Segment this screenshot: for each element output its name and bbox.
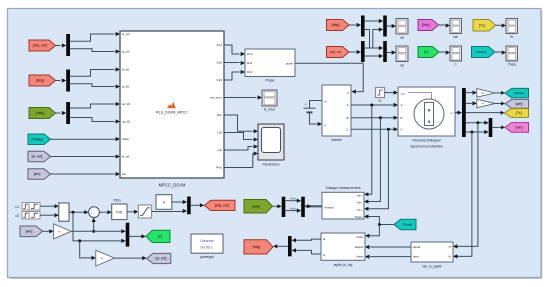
wire inverter B to PMSM	[351, 116, 398, 120]
wire Dv1 to Pluse	[224, 45, 245, 56]
svg-text:+: +	[90, 211, 92, 215]
svg-text:[Theta]: [Theta]	[32, 137, 43, 141]
svg-text:theta: theta	[122, 137, 129, 141]
svg-text:[Theta]: [Theta]	[476, 50, 485, 54]
svg-text:iq: iq	[323, 253, 326, 257]
scope iqf	[396, 46, 408, 67]
svg-text:Rsv: Rsv	[217, 113, 223, 117]
wire mux to goto idq_ref	[191, 203, 205, 207]
wire mux to goto iab	[492, 126, 505, 130]
svg-text:+: +	[305, 102, 307, 106]
wire m to demux	[455, 111, 462, 115]
svg-text:[udq]: [udq]	[36, 111, 45, 115]
block constant 0	[156, 195, 172, 210]
svg-text:PID: PID	[116, 211, 122, 215]
svg-text:<Uq>: <Uq>	[289, 207, 296, 211]
svg-text:id_ref: id_ref	[122, 32, 130, 36]
wire iq to mux	[292, 248, 321, 254]
wire Theta to scope	[495, 50, 506, 54]
from tag [w_ref]	[28, 151, 51, 162]
from tag [we]	[28, 169, 51, 180]
step source n1b	[29, 203, 40, 211]
svg-text:w_ref: w_ref	[122, 155, 130, 159]
wire gain to goto we	[495, 102, 505, 106]
svg-text:w_error: w_error	[264, 108, 276, 112]
scope idf	[396, 19, 408, 40]
wire n2 to mux	[40, 213, 59, 217]
scope w_error	[262, 90, 277, 112]
svg-text:Theta: Theta	[354, 215, 362, 219]
wire w_ref to block	[51, 154, 121, 158]
from tag [idq_ref] (top)	[327, 47, 350, 58]
svg-text:Dv1: Dv1	[217, 43, 223, 47]
svg-text:[idq]: [idq]	[253, 245, 260, 249]
svg-text:[n]: [n]	[158, 235, 162, 239]
wire demux to theta gain	[466, 91, 477, 95]
label n2	[16, 214, 20, 218]
wire Lqv to Parameters	[224, 144, 258, 150]
from tag [n] (top)	[418, 47, 439, 58]
wire gain to goto w_ref	[115, 256, 147, 260]
svg-text:-K-: -K-	[481, 92, 484, 95]
wire inverter A to PMSM	[351, 103, 398, 107]
svg-text:RLS_DSVM_MPCC: RLS_DSVM_MPCC	[156, 111, 188, 115]
svg-text:[idq_ref]: [idq_ref]	[330, 50, 341, 54]
wire PID to saturation	[127, 210, 138, 214]
goto tag [idq] (lower)	[244, 240, 273, 254]
top mux 2	[383, 41, 387, 62]
wire tap C to Vc	[364, 129, 388, 211]
svg-text:Parameters: Parameters	[262, 163, 279, 167]
goto tag [idq_ref] (lower)	[204, 200, 235, 210]
wire demux2 out2 to iq_k0	[70, 84, 120, 89]
wire demux ia to mux	[466, 121, 489, 125]
svg-text:[Te]: [Te]	[479, 23, 485, 27]
svg-text:ia: ia	[449, 244, 452, 248]
svg-text:Discrete: Discrete	[200, 239, 213, 243]
svg-text:iq_k0: iq_k0	[122, 85, 130, 89]
svg-text:[udq]: [udq]	[252, 204, 260, 208]
wire demux to goto Te	[466, 111, 505, 115]
gain theta	[477, 89, 495, 98]
svg-text:alpha: alpha	[413, 245, 421, 249]
svg-text:iab_to_iaplbt: iab_to_iaplbt	[423, 264, 442, 268]
svg-text:[iab]: [iab]	[515, 126, 522, 130]
wire mux1 to scope idf	[387, 24, 396, 28]
goto tag [Theta]	[505, 88, 529, 97]
from tag [idq]	[29, 75, 56, 86]
svg-text:Dv3: Dv3	[217, 78, 223, 82]
svg-text:-K-: -K-	[100, 257, 103, 260]
wire nref to sum	[69, 210, 89, 214]
svg-text:uq_k0: uq_k0	[122, 120, 131, 124]
goto tag [w_ref]	[147, 253, 171, 263]
wire we feedback up	[92, 218, 96, 233]
wire demux1 out1 to id_ref	[70, 32, 120, 41]
wire demux ib to mux	[466, 130, 489, 134]
svg-text:Dv2: Dv2	[247, 61, 253, 65]
block powergui	[191, 234, 223, 259]
scope iab	[450, 19, 462, 39]
wire tap ia down	[453, 123, 478, 249]
svg-text:id: id	[323, 237, 326, 241]
block TL (load torque step)	[376, 88, 385, 103]
wire we to block	[51, 172, 121, 176]
from tag [udq] (lower)	[244, 200, 273, 214]
gain we scale	[54, 224, 72, 239]
from tag [Te] (top)	[473, 20, 496, 32]
svg-text:[iab]: [iab]	[422, 23, 430, 27]
svg-text:powergui: powergui	[200, 255, 214, 259]
label n1	[16, 205, 20, 209]
mux iab	[489, 118, 493, 137]
scope Parameters	[258, 124, 284, 167]
sum junction	[89, 207, 100, 218]
wire Theta distribution	[364, 214, 394, 238]
wire demux2 out1 to id_k0	[70, 67, 120, 76]
demux idq_ref	[66, 34, 70, 56]
svg-text:C: C	[401, 127, 403, 131]
svg-text:Te: Te	[510, 35, 514, 39]
svg-text:[n]: [n]	[424, 50, 429, 54]
demux machine outputs	[462, 88, 466, 137]
block saturation	[138, 205, 151, 218]
wire Ldv to Parameters	[224, 133, 258, 142]
from tag [idq] (top)	[327, 20, 350, 31]
wire demux3 out2 to uq_k0	[70, 118, 120, 124]
wire n1 to mux	[40, 204, 59, 208]
svg-text:[we]: [we]	[34, 172, 41, 176]
svg-text:N: N	[428, 107, 431, 112]
wire gain to goto Theta	[495, 91, 505, 95]
from tag [iab] (top)	[418, 20, 439, 31]
svg-text:id_k0: id_k0	[122, 68, 130, 72]
wire sum to PID	[99, 210, 111, 214]
svg-text:Synchronous Machine: Synchronous Machine	[410, 144, 443, 148]
wire Rsv to Parameters	[224, 115, 258, 133]
top demux 1	[361, 16, 365, 37]
scope Te	[506, 19, 518, 39]
block Permanent Magnet Synchronous Machine	[398, 87, 455, 148]
mux speed ref	[59, 203, 69, 221]
svg-text:[Te]: [Te]	[516, 111, 522, 115]
step source n1a	[22, 203, 29, 211]
block Voltage measurement	[322, 186, 364, 219]
svg-text:ibeta: ibeta	[356, 255, 363, 259]
goto tag [n]	[146, 230, 170, 242]
wire tap A to Va	[364, 105, 372, 196]
svg-text:iq_ref: iq_ref	[122, 50, 130, 54]
wire Theta to block	[51, 137, 121, 141]
wire Phiv to Parameters	[224, 151, 258, 167]
svg-text:n: n	[455, 62, 457, 66]
wire id to mux	[292, 238, 321, 242]
svg-text:PIDn: PIDn	[113, 198, 120, 202]
svg-text:Voltage measurement: Voltage measurement	[326, 186, 361, 190]
wire tap ib down	[453, 132, 472, 259]
wire const0 to mux	[172, 200, 187, 204]
from tag [udq]	[29, 108, 56, 119]
wire Ud	[285, 197, 301, 203]
svg-text:ib: ib	[449, 254, 452, 258]
label PIDn	[113, 198, 120, 202]
svg-text:n1: n1	[16, 205, 20, 209]
step source n2a	[22, 212, 29, 220]
svg-text:we: we	[122, 172, 126, 176]
wire Dv3 to Pluse	[224, 70, 245, 80]
wire tap B to Vb	[364, 118, 380, 204]
svg-text:[idq]: [idq]	[332, 23, 340, 27]
svg-text:[idq_ref]: [idq_ref]	[33, 44, 47, 48]
svg-text:[idq]: [idq]	[36, 79, 44, 83]
svg-text:Ldv: Ldv	[217, 131, 222, 135]
svg-text:<Ud>: <Ud>	[289, 197, 296, 201]
svg-text:5e-06 s.: 5e-06 s.	[201, 246, 214, 250]
demux Ud Uq	[282, 197, 286, 217]
svg-text:iqf: iqf	[400, 63, 403, 67]
svg-text:ialpha: ialpha	[355, 245, 363, 249]
mux idq_ref out	[187, 197, 191, 215]
gain nref to wref	[96, 250, 115, 266]
wire demux1 out2 to iq_ref	[70, 49, 120, 54]
wire alpha to ialpha	[365, 245, 411, 249]
wire mux to goto n	[129, 234, 146, 238]
svg-text:-: -	[94, 214, 95, 218]
wire idq to top demux	[349, 23, 361, 27]
block iab_to_iaplbt	[411, 242, 453, 268]
svg-text:S: S	[428, 119, 431, 124]
svg-text:n2: n2	[16, 214, 20, 218]
svg-text:Permanent Magnet: Permanent Magnet	[412, 138, 440, 142]
top demux 2	[361, 41, 365, 62]
svg-text:iaplbt_to_idq: iaplbt_to_idq	[334, 263, 353, 267]
svg-text:[we]: [we]	[26, 229, 33, 233]
svg-text:[Theta]: [Theta]	[514, 91, 523, 95]
block Inverter	[322, 85, 351, 142]
wire mux to goto idq	[273, 244, 288, 248]
wire iab to scope	[439, 23, 451, 27]
wire nref down	[73, 212, 126, 243]
from tag [idq_ref]	[29, 40, 56, 51]
svg-text:Vmean: Vmean	[324, 205, 334, 209]
svg-text:C: C	[346, 127, 348, 131]
block iaplbt_to_idq	[321, 233, 365, 267]
svg-text:[w_ref]: [w_ref]	[32, 155, 43, 159]
svg-text:Dv2: Dv2	[217, 61, 223, 65]
wire demux3 out1 to ud_k0	[70, 102, 120, 108]
svg-text:TL: TL	[378, 99, 382, 103]
scope Theta	[506, 46, 518, 66]
top mux 1	[383, 16, 387, 37]
svg-text:Phiv: Phiv	[216, 166, 222, 170]
block PID	[112, 204, 127, 220]
svg-text:[we]: [we]	[516, 102, 523, 106]
wire inverter C to PMSM	[351, 127, 398, 131]
demux udq	[66, 102, 70, 124]
wire idq_ref to demux	[56, 43, 67, 47]
mux Ud Uq	[301, 197, 305, 217]
wire nref to gain wref	[80, 241, 96, 260]
wire bus mux to Vmean	[305, 204, 322, 208]
wire idq_ref to top demux	[349, 50, 361, 54]
svg-text:MPCC_DSVM: MPCC_DSVM	[159, 183, 186, 188]
demux idq	[66, 70, 70, 92]
wire demux to we gain	[466, 101, 477, 105]
wire idq to demux	[56, 78, 67, 82]
wire udq to demux	[273, 204, 282, 208]
svg-text:-K-: -K-	[58, 230, 61, 233]
svg-text:pulse: pulse	[286, 61, 294, 65]
wire saturation to mux	[152, 209, 188, 213]
wire Dv2 to Pluse	[224, 61, 245, 65]
scope n	[450, 46, 462, 66]
svg-text:v+: v+	[324, 100, 327, 104]
svg-text:[w_ref]: [w_ref]	[156, 257, 167, 261]
svg-text:we_error: we_error	[210, 96, 222, 100]
svg-text:Va+: Va+	[357, 193, 362, 197]
wire iq crossing down	[365, 30, 384, 51]
wire Te to scope	[496, 23, 507, 27]
wire gain we to mux n	[71, 229, 126, 233]
mux n display	[126, 223, 130, 247]
svg-text:0: 0	[163, 201, 165, 205]
wire n to scope	[439, 50, 450, 54]
wire we to gain	[43, 229, 54, 233]
svg-text:iab: iab	[453, 35, 457, 39]
svg-text:beta: beta	[413, 255, 419, 259]
svg-text:ud_k0: ud_k0	[122, 102, 131, 106]
svg-text:Theta: Theta	[508, 62, 516, 66]
svg-text:[idq_ref]: [idq_ref]	[215, 203, 229, 207]
wire iq_ref to mux2	[365, 54, 384, 58]
wire id_ref crossing up	[365, 27, 384, 48]
wire TL to Tm	[385, 91, 399, 95]
wire we_error to scope	[224, 95, 262, 99]
svg-text:[Theta]: [Theta]	[403, 222, 412, 226]
from tag [Theta]	[28, 134, 51, 145]
svg-text:Vb+: Vb+	[357, 201, 363, 205]
wire pulse to inverter g	[295, 63, 363, 93]
from tag [Theta] (top)	[472, 47, 496, 58]
wire id to mux1	[365, 19, 384, 23]
svg-text:Tm: Tm	[401, 92, 406, 96]
block MPCC_DSVM (RLS_DSVM_MPCC)	[120, 31, 224, 188]
svg-text:B: B	[401, 116, 403, 120]
wire mux2 to scope iqf	[387, 50, 396, 54]
svg-text:Vc+: Vc+	[357, 208, 363, 212]
step source n2b	[29, 212, 40, 220]
dc source battery	[304, 101, 323, 127]
block Pluse	[245, 49, 295, 83]
svg-text:idf: idf	[400, 36, 403, 40]
svg-text:Lqv: Lqv	[217, 148, 222, 152]
goto tag [iab]	[505, 123, 529, 133]
from tag [we] (lower)	[20, 226, 43, 237]
wire beta to ibeta	[365, 255, 411, 259]
wire udq to demux	[56, 111, 67, 115]
goto tag [Te]	[505, 109, 529, 118]
svg-text:v-: v-	[324, 123, 326, 127]
svg-text:A: A	[401, 103, 403, 107]
mux idq measured	[288, 236, 292, 256]
goto tag [we]	[505, 99, 529, 108]
wire Uq	[285, 207, 301, 213]
svg-text:Dv1: Dv1	[247, 52, 253, 56]
svg-text:A: A	[347, 103, 349, 107]
svg-text:-K-: -K-	[481, 103, 484, 106]
svg-text:Pluse: Pluse	[266, 79, 275, 83]
from tag [Theta] (flipped, lower)	[394, 219, 416, 229]
svg-text:B: B	[347, 116, 349, 120]
svg-text:Inverter: Inverter	[331, 138, 343, 142]
svg-text:Dv3: Dv3	[247, 70, 253, 74]
gain we	[477, 99, 495, 108]
svg-text:theta: theta	[356, 235, 363, 239]
